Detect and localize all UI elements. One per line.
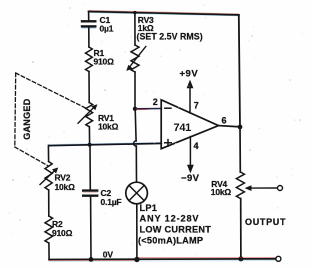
ganged dashed link to RV1 xyxy=(16,73,86,108)
svg-text:910Ω: 910Ω xyxy=(52,228,73,238)
node junction RV1/C2/+ line xyxy=(88,143,92,147)
wire pin 7 supply xyxy=(189,88,191,113)
svg-text:0µ1: 0µ1 xyxy=(100,23,114,33)
svg-text:RV2: RV2 xyxy=(55,173,71,183)
svg-text:741: 741 xyxy=(174,122,192,134)
wire right rail: pin6 node down to RV4 xyxy=(239,127,241,172)
wire R1 to RV1 xyxy=(88,72,90,103)
node junction lamp/bottom rail xyxy=(134,257,139,262)
wire bottom rail xyxy=(49,258,276,261)
node junction C2/bottom rail xyxy=(89,257,94,262)
wire top rail to RV3 xyxy=(134,13,136,45)
RV1 wiper arrow xyxy=(78,107,95,124)
lamp LP1 cross xyxy=(129,185,144,200)
wire left column stub from top rail to C1 xyxy=(88,12,90,21)
label RV2 xyxy=(55,173,76,193)
svg-text:2: 2 xyxy=(153,97,158,107)
svg-text:910Ω: 910Ω xyxy=(94,57,115,67)
op-amp plus symbol xyxy=(165,140,171,146)
svg-text:(SET 2.5V RMS): (SET 2.5V RMS) xyxy=(137,31,203,41)
svg-text:−9V: −9V xyxy=(181,173,200,184)
wire C1 to R1 xyxy=(88,27,90,47)
label RV3 xyxy=(137,15,203,41)
svg-text:6: 6 xyxy=(222,115,227,125)
svg-text:GANGED: GANGED xyxy=(22,98,32,140)
-9V arrowhead xyxy=(187,165,194,174)
potentiometer RV1 10k zigzag xyxy=(86,103,93,127)
wire RV2 column corner from + line xyxy=(47,146,49,162)
wire right rail upper (top rail to pin6 node) xyxy=(239,15,240,127)
svg-text:LOW CURRENT: LOW CURRENT xyxy=(140,224,212,234)
wire pin 6 output xyxy=(219,126,241,127)
wire RV4 bottom to bottom rail xyxy=(240,199,242,259)
node junction right rail/bottom rail xyxy=(238,256,243,261)
svg-text:LP1: LP1 xyxy=(140,203,158,213)
wire pin 4 supply xyxy=(189,137,191,166)
wire C2 to bottom rail xyxy=(90,197,92,260)
label R2 xyxy=(52,219,73,238)
wire R2 to bottom rail xyxy=(48,243,50,260)
op-amp U1 741 triangle xyxy=(161,100,218,149)
wire lamp column upper with hop over + line xyxy=(134,109,137,141)
wire + node line (non-inverting input) xyxy=(48,143,161,145)
svg-text:(<50mA)LAMP: (<50mA)LAMP xyxy=(138,235,203,245)
wire RV1 to + node xyxy=(88,127,90,145)
terminal: RV4 wiper output xyxy=(278,186,283,191)
ganged dashed link to RV2 xyxy=(15,147,48,166)
label C2 xyxy=(101,188,122,207)
node junction RV3/lamp/pin2 xyxy=(133,107,137,111)
node junction pin6/right rail xyxy=(238,125,243,130)
wire + node down to C2 xyxy=(89,145,91,190)
wire RV2 to R2 xyxy=(48,190,50,216)
label LP1 block xyxy=(138,203,211,245)
label C1 xyxy=(100,15,114,33)
svg-text:0V: 0V xyxy=(103,249,114,259)
svg-text:7: 7 xyxy=(194,101,199,111)
potentiometer RV3 1k zigzag xyxy=(131,45,139,72)
wire lamp to bottom rail xyxy=(136,204,138,260)
wire pin 2 (inverting input) xyxy=(135,108,161,110)
RV4 wiper arrow xyxy=(249,187,277,189)
label RV4 xyxy=(211,179,232,197)
+9V arrowhead xyxy=(187,80,194,89)
svg-text:10kΩ: 10kΩ xyxy=(211,187,232,197)
potentiometer RV4 10k zigzag xyxy=(236,172,244,199)
svg-text:10kΩ: 10kΩ xyxy=(98,121,119,131)
lamp LP1 circle xyxy=(126,182,148,204)
RV3 wiper arrow (points lower-left) xyxy=(130,47,146,68)
wire RV3 to pin2 node xyxy=(134,72,136,109)
svg-text:4: 4 xyxy=(194,141,199,151)
ganged dashed link vertical xyxy=(14,73,17,147)
label R1 xyxy=(94,48,115,67)
svg-text:OUTPUT: OUTPUT xyxy=(245,217,286,227)
svg-text:+9V: +9V xyxy=(180,69,199,80)
capacitor C2 plates xyxy=(83,189,97,191)
capacitor C1 plates xyxy=(82,20,95,22)
label RV1 xyxy=(98,113,119,131)
terminal: bottom right output xyxy=(276,256,281,261)
op-amp minus symbol xyxy=(165,107,171,109)
svg-text:0.1µF: 0.1µF xyxy=(101,197,122,207)
node: RV3 top rail tap xyxy=(133,11,136,14)
resistor R1 910R zigzag xyxy=(86,47,93,72)
RV2 wiper arrow xyxy=(40,170,56,185)
svg-text:10kΩ: 10kΩ xyxy=(55,182,76,192)
potentiometer RV2 10k zigzag xyxy=(45,162,52,191)
resistor R2 910R zigzag xyxy=(45,216,53,243)
wire top rail xyxy=(89,12,239,15)
svg-text:ANY 12-28V: ANY 12-28V xyxy=(140,214,200,224)
